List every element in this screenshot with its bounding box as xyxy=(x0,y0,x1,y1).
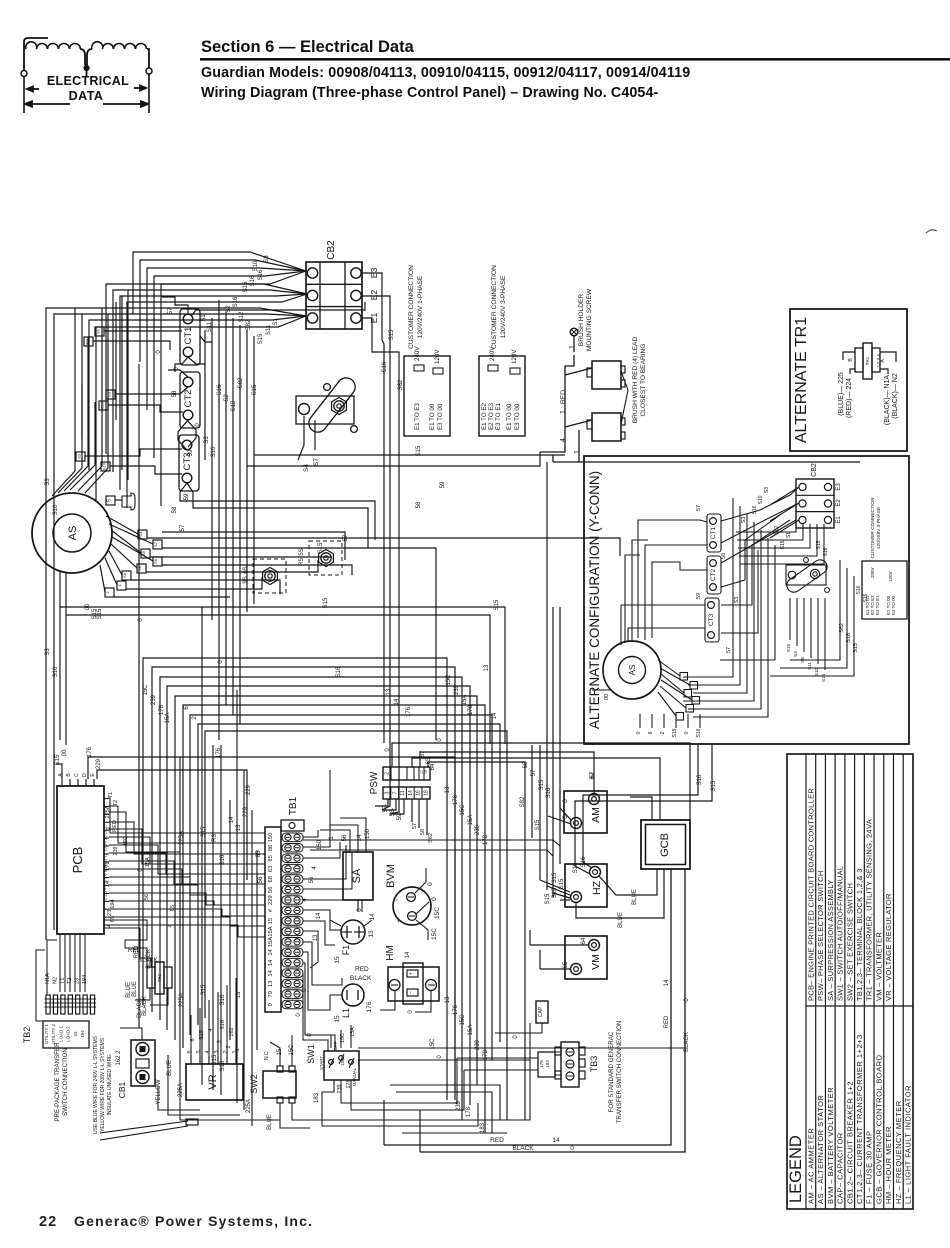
svg-text:14: 14 xyxy=(405,951,411,958)
svg-text:14: 14 xyxy=(408,790,414,796)
svg-text:1: 1 xyxy=(560,410,567,414)
svg-text:S82: S82 xyxy=(520,796,526,807)
svg-text:S16: S16 xyxy=(581,856,587,867)
svg-text:PSW: PSW xyxy=(369,771,380,794)
svg-text:14: 14 xyxy=(268,948,274,955)
svg-text:S15: S15 xyxy=(416,445,422,456)
svg-text:S15: S15 xyxy=(97,608,103,619)
svg-text:4: 4 xyxy=(168,924,174,927)
svg-text:57: 57 xyxy=(168,307,174,314)
PCB to TB1 wires xyxy=(109,798,265,833)
wires exiting Y-CONN xyxy=(583,744,698,845)
Y-CONN current transformer CT1 xyxy=(707,514,721,552)
svg-text:5S: 5S xyxy=(299,548,305,555)
svg-text:TR1: TR1 xyxy=(865,356,870,365)
svg-text:S16: S16 xyxy=(258,269,264,280)
svg-text:3: 3 xyxy=(214,1050,220,1053)
svg-text:15: 15 xyxy=(334,1015,341,1023)
svg-text:CLOSEST TO BEARING: CLOSEST TO BEARING xyxy=(640,344,647,417)
svg-text:239: 239 xyxy=(113,846,119,855)
plug connector near AS xyxy=(122,493,135,510)
svg-text:S16: S16 xyxy=(220,1060,226,1071)
svg-text:14: 14 xyxy=(552,1137,560,1144)
svg-text:56: 56 xyxy=(309,876,315,883)
svg-text:SA: SA xyxy=(351,868,363,883)
svg-text:S1: S1 xyxy=(273,318,279,326)
AS fan to connector boxes xyxy=(106,516,138,534)
svg-text:E3 TO 00: E3 TO 00 xyxy=(437,403,444,430)
svg-text:E3 TO 00: E3 TO 00 xyxy=(514,403,521,430)
svg-text:RED: RED xyxy=(128,948,141,954)
terminal block TB1 xyxy=(265,827,281,1012)
svg-text:S3: S3 xyxy=(741,517,747,524)
VM leads xyxy=(530,944,588,946)
svg-text:E3 TO E1: E3 TO E1 xyxy=(495,402,502,430)
svg-text:225A: 225A xyxy=(179,831,185,845)
svg-text:S3: S3 xyxy=(107,391,112,397)
svg-text:PRE-PACKAGE TRANSFER: PRE-PACKAGE TRANSFER xyxy=(54,1042,61,1122)
svg-text:3: 3 xyxy=(217,1040,223,1043)
svg-text:S16: S16 xyxy=(220,1020,226,1030)
svg-text:BLACK: BLACK xyxy=(512,1145,534,1152)
svg-text:S15: S15 xyxy=(201,826,207,837)
circuit breaker CB1 xyxy=(131,1040,155,1086)
svg-text:HZ – FREQUENCY METER: HZ – FREQUENCY METER xyxy=(894,1100,903,1204)
svg-text:120V/240V 3-PHASE: 120V/240V 3-PHASE xyxy=(500,275,507,338)
TR1 wires xyxy=(104,920,147,967)
svg-text:S15: S15 xyxy=(535,819,541,830)
Y-CONN wires below CB2 xyxy=(736,524,796,532)
svg-text:S8: S8 xyxy=(122,572,127,578)
voltmeter VM xyxy=(565,936,607,979)
svg-text:15C: 15C xyxy=(446,674,452,686)
svg-text:225A: 225A xyxy=(178,1083,184,1097)
svg-text:229: 229 xyxy=(246,784,252,795)
svg-text:S3: S3 xyxy=(264,255,270,263)
svg-text:CAP: CAP xyxy=(538,1006,544,1017)
svg-text:E2 TO E3: E2 TO E3 xyxy=(488,402,495,430)
svg-text:S82: S82 xyxy=(238,377,244,388)
svg-text:UTILITY 1: UTILITY 1 xyxy=(44,1023,49,1043)
PCB pin stubs xyxy=(104,924,109,926)
svg-text:00: 00 xyxy=(62,749,68,756)
TB3 connection wires xyxy=(457,1057,538,1059)
svg-text:E1 TO 00: E1 TO 00 xyxy=(506,403,513,430)
bottom horizontals right of SW1 xyxy=(358,1047,684,1049)
svg-text:239: 239 xyxy=(337,1084,343,1093)
option box: 3-phase connections xyxy=(479,356,525,436)
svg-text:14: 14 xyxy=(369,913,376,921)
svg-text:S15: S15 xyxy=(786,643,791,652)
svg-text:239: 239 xyxy=(454,684,460,695)
CAP wires xyxy=(495,1023,542,1033)
AS bottom leads xyxy=(59,570,61,740)
terminal block TB3 xyxy=(561,1042,579,1087)
svg-text:E1 TO 00: E1 TO 00 xyxy=(429,403,436,430)
svg-text:15A: 15A xyxy=(340,1058,345,1066)
brush block lower xyxy=(592,413,621,441)
svg-text:23: 23 xyxy=(107,910,113,916)
svg-text:64: 64 xyxy=(430,763,436,770)
svg-text:CAP– CAPACITOR: CAP– CAPACITOR xyxy=(836,1132,845,1204)
svg-text:S7: S7 xyxy=(313,458,320,466)
brush wires xyxy=(540,355,574,452)
svg-text:5: 5 xyxy=(196,1050,202,1053)
option box: 1-phase connections xyxy=(404,356,450,436)
svg-text:N1A: N1A xyxy=(45,973,51,984)
svg-text:S6: S6 xyxy=(153,558,158,564)
svg-text:5: 5 xyxy=(107,499,113,502)
svg-text:S16: S16 xyxy=(233,296,239,307)
svg-text:68: 68 xyxy=(268,876,274,882)
Y-CONN internal wires xyxy=(658,660,680,676)
svg-text:BLUE: BLUE xyxy=(267,1114,273,1130)
svg-text:VM: VM xyxy=(590,954,602,970)
svg-text:CB1: CB1 xyxy=(117,1081,127,1098)
svg-text:15A: 15A xyxy=(165,713,171,724)
svg-text:TR1 – TRANSFORMER, UTILITY: TR1 – TRANSFORMER, UTILITY SENSING, 24VA xyxy=(865,819,874,1001)
svg-text:178: 178 xyxy=(539,1060,544,1068)
svg-text:0: 0 xyxy=(427,882,434,886)
svg-text:TRANSFER SWITCH CONNECTION: TRANSFER SWITCH CONNECTION xyxy=(616,1021,623,1124)
svg-text:L1 – LIGHT FAULT INDICATO: L1 – LIGHT FAULT INDICATOR xyxy=(904,1085,913,1204)
svg-text:RED: RED xyxy=(355,966,369,973)
svg-text:2: 2 xyxy=(660,731,666,734)
svg-text:PSW– PHASE SELECTOR SWITCH: PSW– PHASE SELECTOR SWITCH xyxy=(816,870,825,1001)
svg-text:S7: S7 xyxy=(153,541,158,547)
svg-text:SW2 – SET EXERCISE SWITCH: SW2 – SET EXERCISE SWITCH xyxy=(845,883,854,1001)
svg-text:YELLOW WIRE FOR 208V L-L SYSTE: YELLOW WIRE FOR 208V L-L SYSTEMS xyxy=(100,1037,106,1132)
svg-text:14: 14 xyxy=(664,979,670,986)
svg-text:VR – VOLTAGE REGULATOR: VR – VOLTAGE REGULATOR xyxy=(884,893,893,1001)
ground nut assembly 1 xyxy=(253,559,286,593)
current transformer CT1 xyxy=(180,309,200,365)
svg-text:59: 59 xyxy=(188,449,194,456)
svg-text:79: 79 xyxy=(268,991,274,997)
svg-text:S3: S3 xyxy=(45,478,51,486)
svg-text:S12: S12 xyxy=(231,400,237,411)
svg-text:LOAD 2: LOAD 2 xyxy=(66,1026,71,1042)
svg-text:S1: S1 xyxy=(201,314,207,322)
svg-text:S4: S4 xyxy=(793,651,798,657)
svg-text:CT2: CT2 xyxy=(710,568,717,581)
svg-text:13: 13 xyxy=(386,688,392,695)
svg-text:S16: S16 xyxy=(220,994,226,1005)
svg-text:S82: S82 xyxy=(839,623,845,633)
svg-text:56: 56 xyxy=(144,894,150,900)
svg-text:58: 58 xyxy=(172,506,178,513)
svg-text:S15: S15 xyxy=(55,754,61,765)
svg-text:FOR STANDARD GENERAC: FOR STANDARD GENERAC xyxy=(608,1031,615,1112)
alternator stator AS xyxy=(32,493,112,573)
svg-text:UTILITY 2: UTILITY 2 xyxy=(51,1023,56,1043)
svg-text:59: 59 xyxy=(696,593,702,599)
svg-text:BRUSH HOLDER: BRUSH HOLDER xyxy=(578,294,585,347)
svg-text:E1: E1 xyxy=(836,516,842,524)
svg-text:S16: S16 xyxy=(752,505,758,514)
svg-text:LEGEND: LEGEND xyxy=(787,1135,805,1203)
TB2 lower label box xyxy=(43,1021,89,1048)
vertical bundle right of PSW xyxy=(531,745,533,838)
svg-text:229: 229 xyxy=(96,758,102,769)
svg-text:13: 13 xyxy=(368,930,375,938)
svg-text:S16: S16 xyxy=(856,585,862,594)
svg-text:ALTERNATE TR1: ALTERNATE TR1 xyxy=(793,317,810,443)
svg-text:CT3: CT3 xyxy=(708,613,715,626)
auto/off/manual switch SW1 xyxy=(324,1051,359,1080)
svg-text:SWITCH CONNECTION: SWITCH CONNECTION xyxy=(62,1048,69,1116)
svg-text:E3 TO E1: E3 TO E1 xyxy=(875,595,880,615)
svg-text:E2: E2 xyxy=(836,499,842,507)
svg-text:1: 1 xyxy=(569,345,576,349)
svg-text:(RED)— 224: (RED)— 224 xyxy=(846,378,853,418)
svg-text:15C: 15C xyxy=(460,804,466,816)
bottom area wires xyxy=(190,1015,192,1056)
Y-CONN current transformer CT2 xyxy=(707,556,721,594)
meter local wires xyxy=(320,830,350,842)
svg-text:0: 0 xyxy=(570,1145,574,1152)
svg-text:57: 57 xyxy=(531,769,537,776)
svg-text:S10: S10 xyxy=(100,401,105,409)
svg-text:S15: S15 xyxy=(863,593,869,602)
svg-text:PCB– ENGINE PRINTED CIRCUIT: PCB– ENGINE PRINTED CIRCUIT BOARD CONTRO… xyxy=(806,788,815,1001)
svg-text:63: 63 xyxy=(268,866,274,872)
circuit breaker CB2 xyxy=(306,262,362,329)
svg-text:85: 85 xyxy=(256,850,262,857)
svg-text:RED: RED xyxy=(664,1015,670,1028)
utility sensing transformer TR1 xyxy=(155,962,164,994)
svg-text:S3: S3 xyxy=(204,436,210,444)
svg-text:14: 14 xyxy=(394,698,400,705)
svg-text:INSULATE UNUSED WIRE: INSULATE UNUSED WIRE xyxy=(107,1054,113,1116)
svg-text:56: 56 xyxy=(268,887,274,893)
svg-text:67: 67 xyxy=(420,750,426,757)
svg-text:S15: S15 xyxy=(199,1030,205,1040)
svg-text:13: 13 xyxy=(445,996,451,1003)
svg-text:HZ: HZ xyxy=(591,880,603,895)
wires descending right of CB2 xyxy=(362,296,390,810)
svg-text:16: 16 xyxy=(416,790,422,796)
svg-text:176: 176 xyxy=(406,706,412,717)
svg-text:BLUE: BLUE xyxy=(167,1060,173,1076)
svg-text:240V: 240V xyxy=(414,346,421,361)
printed circuit board PCB xyxy=(57,786,104,934)
svg-text:MOUNTING SCREW: MOUNTING SCREW xyxy=(586,288,593,351)
svg-text:(BLACK)— N2: (BLACK)— N2 xyxy=(892,373,899,419)
svg-text:S15: S15 xyxy=(853,643,859,653)
svg-text:S16: S16 xyxy=(220,854,226,865)
svg-text:D: D xyxy=(82,773,88,777)
svg-text:59: 59 xyxy=(184,493,190,500)
svg-text:58-: 58- xyxy=(390,808,396,817)
svg-text:S15: S15 xyxy=(323,597,329,608)
svg-text:SW1 – SWITCH AUTO/OFF/MANUAL: SW1 – SWITCH AUTO/OFF/MANUAL xyxy=(836,866,845,1001)
Y-CONN alternator stator AS xyxy=(603,641,661,699)
svg-text:208V: 208V xyxy=(870,567,875,578)
svg-text:15C: 15C xyxy=(340,1033,346,1043)
bottom-middle extra wires xyxy=(390,1085,500,1120)
svg-text:S12: S12 xyxy=(239,311,245,322)
svg-text:183: 183 xyxy=(545,1060,550,1068)
svg-text:229: 229 xyxy=(268,895,274,905)
horizontals TB1 to HZ xyxy=(303,840,560,846)
svg-text:S15: S15 xyxy=(318,542,324,553)
svg-text:Guardian Models: 00908/04113,: Guardian Models: 00908/04113, 00910/0411… xyxy=(201,65,690,81)
svg-text:S15: S15 xyxy=(252,384,258,395)
svg-text:120V: 120V xyxy=(511,349,518,364)
svg-text:SA – SURPRESSION ASSEMBLY: SA – SURPRESSION ASSEMBLY xyxy=(826,879,835,1001)
brush block upper xyxy=(592,361,621,389)
svg-text:HM – HOUR METER: HM – HOUR METER xyxy=(884,1126,893,1204)
svg-text:176: 176 xyxy=(453,1004,459,1015)
svg-text:S3: S3 xyxy=(77,453,82,459)
svg-text:15: 15 xyxy=(424,770,428,774)
svg-text:13: 13 xyxy=(484,664,490,671)
svg-text:MANUAL: MANUAL xyxy=(352,1067,357,1086)
svg-text:BLACK: BLACK xyxy=(350,975,372,982)
svg-text:Generac® Power Systems, Inc.: Generac® Power Systems, Inc. xyxy=(74,1213,313,1229)
svg-text:AM – AC AMMETER: AM – AC AMMETER xyxy=(806,1128,815,1204)
svg-text:59-: 59- xyxy=(397,812,403,821)
svg-text:Section 6 — Electrical Data: Section 6 — Electrical Data xyxy=(201,38,415,56)
svg-text:S16: S16 xyxy=(846,633,852,643)
svg-text:14: 14 xyxy=(229,816,235,823)
svg-text:DATA: DATA xyxy=(69,89,104,103)
svg-text:4: 4 xyxy=(208,1028,214,1031)
svg-text:BLACK: BLACK xyxy=(684,1032,690,1052)
svg-text:CB1,2– CIRCUIT BREAKER 1+2: CB1,2– CIRCUIT BREAKER 1+2 xyxy=(845,1081,854,1204)
svg-text:1: 1 xyxy=(574,450,581,454)
svg-text:S10: S10 xyxy=(102,462,107,470)
svg-text:15C: 15C xyxy=(460,1014,466,1026)
svg-text:S15: S15 xyxy=(212,1054,218,1065)
svg-text:2: 2 xyxy=(223,1050,229,1053)
svg-text:E1 TO E2: E1 TO E2 xyxy=(481,402,488,430)
svg-text:S2: S2 xyxy=(226,305,232,313)
svg-text:YELLOW: YELLOW xyxy=(156,1079,162,1104)
svg-text:E2: E2 xyxy=(369,290,379,301)
svg-text:15: 15 xyxy=(268,918,274,924)
svg-text:9: 9 xyxy=(648,731,654,734)
Y-CONN circuit breaker CB2 xyxy=(796,479,834,528)
svg-text:2: 2 xyxy=(226,1045,232,1048)
svg-text:183: 183 xyxy=(480,1122,486,1133)
svg-text:13: 13 xyxy=(445,786,451,793)
svg-text:S4: S4 xyxy=(303,464,310,472)
svg-text:CT1,2,3– CURRENT TRANSFORMER: CT1,2,3– CURRENT TRANSFORMER 1+2+3 xyxy=(855,1034,864,1204)
svg-text:HM: HM xyxy=(385,945,396,961)
wire fan into CB2 xyxy=(133,252,306,314)
frequency meter HZ xyxy=(565,864,607,907)
wires above PSW xyxy=(392,743,690,820)
ground nut assembly 2 xyxy=(309,541,342,575)
alternate TR1 box xyxy=(790,309,907,451)
svg-text:RED: RED xyxy=(112,820,118,832)
svg-text:S15: S15 xyxy=(494,599,500,610)
svg-text:S10: S10 xyxy=(211,446,217,457)
svg-text:F1 – FUSE 30 AMP: F1 – FUSE 30 AMP xyxy=(865,1131,874,1204)
svg-text:BVM: BVM xyxy=(385,864,397,888)
svg-text:R3: R3 xyxy=(212,834,218,842)
svg-text:CT2: CT2 xyxy=(183,390,194,408)
svg-text:CB2: CB2 xyxy=(326,240,337,260)
wire verticals below CB2 xyxy=(204,330,206,460)
svg-text:57: 57 xyxy=(180,524,186,531)
hour meter HM xyxy=(388,967,439,1001)
svg-text:14: 14 xyxy=(268,959,274,966)
svg-text:58: 58 xyxy=(420,829,426,835)
svg-text:S3: S3 xyxy=(734,597,740,604)
HZ terminal wires xyxy=(540,880,570,892)
svg-text:S82: S82 xyxy=(774,525,780,534)
svg-text:−: − xyxy=(394,898,400,902)
svg-text:162 2: 162 2 xyxy=(116,1050,122,1066)
svg-text:SW1: SW1 xyxy=(306,1044,316,1064)
svg-text:S10: S10 xyxy=(758,495,764,504)
legend table xyxy=(787,754,913,1209)
svg-text:BLACK: BLACK xyxy=(137,998,143,1018)
brush arm bracket xyxy=(296,396,354,424)
svg-text:CB2: CB2 xyxy=(811,463,818,477)
svg-text:6: 6 xyxy=(187,1050,193,1053)
svg-text:15A: 15A xyxy=(268,937,274,947)
svg-text:(BLACK)— N1A: (BLACK)— N1A xyxy=(884,375,891,426)
svg-text:S16: S16 xyxy=(697,774,703,785)
svg-text:BVM – BATTERY VOLTMETER: BVM – BATTERY VOLTMETER xyxy=(826,1087,835,1204)
svg-text:15C: 15C xyxy=(143,684,149,696)
svg-text:S16: S16 xyxy=(217,384,223,395)
suppression assembly SA xyxy=(343,852,373,900)
Y-CONN brush arm bracket xyxy=(786,565,826,585)
phase selector switch PSW xyxy=(383,767,430,780)
svg-text:BLUE: BLUE xyxy=(126,982,132,998)
svg-text:229: 229 xyxy=(243,806,249,817)
svg-text:TB1,2,3– TERMINAL BLOCK 1,: TB1,2,3– TERMINAL BLOCK 1,2,& 3 xyxy=(855,868,864,1001)
svg-text:0: 0 xyxy=(268,1003,274,1006)
Y-CONN current transformer CT3 xyxy=(705,598,719,642)
svg-text:15A: 15A xyxy=(350,1027,356,1037)
svg-text:S3: S3 xyxy=(764,487,770,493)
svg-text:85: 85 xyxy=(268,855,274,861)
svg-text:S11: S11 xyxy=(266,324,272,335)
svg-text:CUSTOMER CONNECTION: CUSTOMER CONNECTION xyxy=(870,497,876,558)
svg-text:SW2: SW2 xyxy=(249,1074,259,1094)
svg-text:1: 1 xyxy=(235,1048,241,1051)
AS fan horizontals xyxy=(147,538,620,556)
PSW lower leads xyxy=(375,799,388,806)
svg-text:VM – VOLTMETER: VM – VOLTMETER xyxy=(874,932,883,1001)
fault light L1 xyxy=(342,984,364,1006)
svg-text:S82: S82 xyxy=(246,319,252,330)
svg-text:239: 239 xyxy=(475,824,481,835)
BLUE wires HZ to GCB xyxy=(599,869,657,895)
svg-text:15A: 15A xyxy=(462,695,468,706)
svg-text:120V: 120V xyxy=(434,349,441,364)
svg-text:58: 58 xyxy=(523,761,529,768)
fuse F1 xyxy=(341,920,365,944)
svg-text:178: 178 xyxy=(466,1106,472,1117)
svg-text:S13: S13 xyxy=(821,673,826,682)
svg-text:S10: S10 xyxy=(253,260,259,271)
svg-text:239: 239 xyxy=(151,694,157,705)
svg-text:14: 14 xyxy=(316,912,322,919)
far-left verticals xyxy=(46,308,75,940)
brush arm leads xyxy=(298,416,304,460)
svg-text:150: 150 xyxy=(268,833,274,843)
svg-text:S10: S10 xyxy=(53,666,59,677)
svg-text:S15: S15 xyxy=(243,281,249,292)
svg-text:S82: S82 xyxy=(428,833,434,843)
